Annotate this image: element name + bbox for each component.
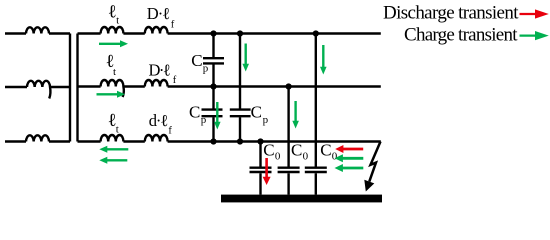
rail x240 xyxy=(239,34,241,142)
arrow charge row1 xyxy=(99,40,128,47)
arrow charge vertical a xyxy=(242,44,249,72)
inductor Lf2 xyxy=(145,80,168,87)
arrow charge C0 green1 xyxy=(335,154,364,162)
capacitor Cp2 plates xyxy=(202,110,223,117)
inductor Lt1 xyxy=(101,27,124,34)
svg-text:p: p xyxy=(201,114,207,126)
label D*Lf1 xyxy=(147,4,175,31)
capacitor C02 plates xyxy=(278,168,300,172)
arrow discharge row3 b xyxy=(99,157,127,164)
label Cp3 xyxy=(251,102,269,126)
svg-text:0: 0 xyxy=(303,150,309,162)
rail x315 xyxy=(315,34,317,195)
svg-text:f: f xyxy=(173,75,177,86)
svg-text:Charge transient: Charge transient xyxy=(404,25,518,46)
rail x213 xyxy=(212,34,214,142)
phase wire C xyxy=(5,140,70,142)
svg-text:Discharge transient: Discharge transient xyxy=(383,3,519,24)
capacitor Cp1 plates xyxy=(203,58,224,63)
svg-text:f: f xyxy=(168,126,172,137)
svg-text:t: t xyxy=(113,66,116,78)
svg-text:C: C xyxy=(320,141,331,160)
svg-text:f: f xyxy=(171,20,175,31)
junction dot r1c3 xyxy=(313,30,319,36)
capacitor C03 plates xyxy=(305,168,327,172)
capacitor Cp3 plates xyxy=(230,110,251,117)
inductor Lt2 xyxy=(101,80,124,97)
svg-text:0: 0 xyxy=(275,150,281,162)
phase wire B xyxy=(5,86,70,88)
svg-text:C: C xyxy=(189,103,200,122)
wire row 1 xyxy=(78,32,381,34)
bus bar left xyxy=(69,34,71,142)
arrow charge row2 xyxy=(97,91,126,98)
arrow charge vertical d xyxy=(292,101,299,129)
junction dot r1c2 xyxy=(237,30,243,36)
inductor Lf1 xyxy=(145,27,168,34)
svg-text:C: C xyxy=(263,141,274,160)
junction dot r2c3 xyxy=(286,83,292,89)
label C03 xyxy=(320,141,338,163)
label d*Lf3 xyxy=(149,111,173,137)
svg-text:d·ℓ: d·ℓ xyxy=(149,111,169,130)
svg-text:D·ℓ: D·ℓ xyxy=(149,60,171,79)
legend charge arrow xyxy=(520,31,549,40)
wire row 3 xyxy=(78,140,381,142)
label Lt3 xyxy=(108,111,119,136)
label Cp1 xyxy=(191,51,209,75)
arrow charge vertical b xyxy=(320,45,327,75)
arrow discharge row3 a xyxy=(99,146,128,153)
svg-text:C: C xyxy=(191,51,202,70)
inductor Lb xyxy=(27,81,50,99)
svg-text:t: t xyxy=(116,15,119,27)
inductor Lt3 xyxy=(101,135,124,142)
junction dot r3c3 xyxy=(257,138,263,144)
junction dot r3c2 xyxy=(237,138,243,144)
svg-text:C: C xyxy=(251,102,262,121)
arrow charge vertical c xyxy=(214,102,221,130)
arrow discharge C0 red xyxy=(335,145,363,153)
rail x260 xyxy=(259,142,261,195)
phase wire A xyxy=(5,32,70,34)
inductor La xyxy=(26,27,49,33)
svg-text:C: C xyxy=(291,141,302,160)
arrow discharge red down xyxy=(263,158,271,185)
inductor Lf3 xyxy=(145,135,168,142)
junction dot r3c1 xyxy=(210,138,216,144)
svg-text:p: p xyxy=(263,114,269,126)
arrow charge C0 green2 xyxy=(335,164,364,172)
svg-text:t: t xyxy=(116,124,119,136)
wire row 2 xyxy=(78,85,381,87)
label Lt1 xyxy=(108,2,119,26)
rail x288 xyxy=(287,87,289,195)
label Lt2 xyxy=(106,52,117,78)
label D*Lf2 xyxy=(149,60,177,86)
inductor Lc xyxy=(26,135,49,141)
legend discharge arrow xyxy=(520,9,549,18)
svg-text:D·ℓ: D·ℓ xyxy=(147,4,170,23)
label C01 xyxy=(263,141,281,163)
lightning bolt arrow xyxy=(364,142,380,192)
junction dot r2c1 xyxy=(210,83,216,89)
capacitor C01 plates xyxy=(250,168,272,172)
ground xyxy=(221,195,382,203)
svg-text:p: p xyxy=(203,63,209,75)
label Cp2 xyxy=(189,103,207,127)
bus bar right xyxy=(76,34,78,142)
junction dot r1c1 xyxy=(210,30,216,36)
label C02 xyxy=(291,141,309,163)
svg-text:0: 0 xyxy=(332,150,338,162)
